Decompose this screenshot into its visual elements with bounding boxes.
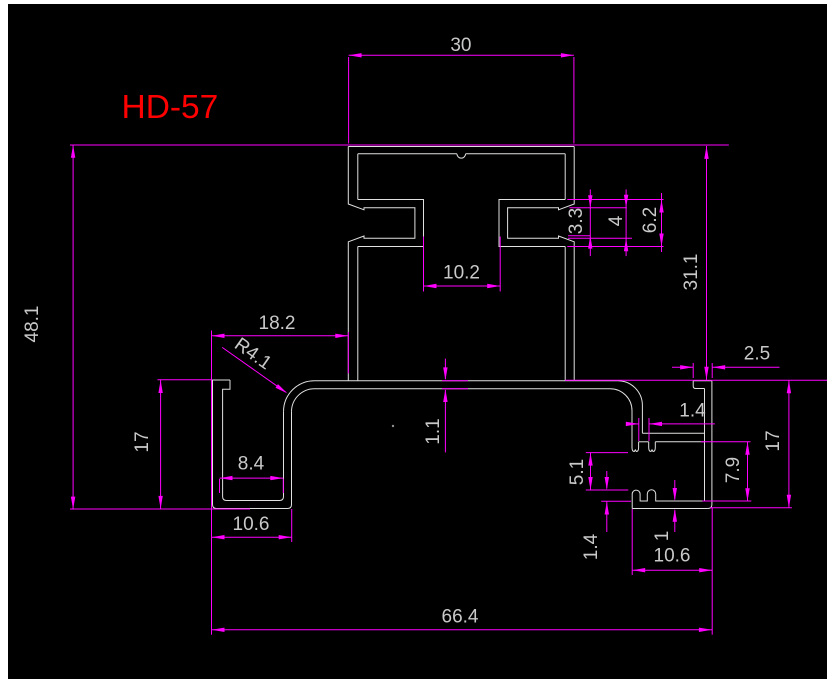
svg-text:4: 4 [606,215,627,226]
profile head left wall outer with slot lips [348,147,415,381]
dimension 1.4 bottom [581,471,631,560]
profile base web bottom line [315,388,611,390]
dimension 31.1 [681,146,709,380]
dimension 10.6 left [212,509,292,542]
extension line right wall outer [711,508,713,635]
svg-text:48.1: 48.1 [22,306,43,343]
extension line left channel outer [211,331,213,635]
profile left slot frame inner lines [358,200,424,247]
svg-text:17: 17 [763,430,784,451]
dimension 2.5 [672,344,780,378]
dimension 10.6 bottom [632,509,712,575]
extension line web top right [565,379,827,381]
profile head inner top line with center notch [358,154,565,158]
profile left channel R4.1 corner arcs [284,381,315,412]
dimension 18.2 [212,313,349,373]
profile head right wall inner [564,154,566,381]
dimension 3.3 [566,189,627,256]
title HD-57 [122,89,219,126]
svg-text:2.5: 2.5 [744,344,770,365]
svg-text:30: 30 [450,35,471,56]
dimension 5.1 [567,453,628,490]
profile right slot frame inner lines [499,200,565,247]
dimension 30 [349,35,574,143]
svg-text:31.1: 31.1 [681,254,702,291]
dimension 66.4 [212,607,712,632]
svg-text:6.2: 6.2 [640,207,661,233]
svg-text:1: 1 [652,531,673,542]
profile screw leg 1 [632,442,639,452]
svg-text:3.3: 3.3 [566,208,587,234]
dimension 48.1 [22,145,75,510]
dimension 6.2 [567,193,663,252]
dimension 17 right [710,380,792,508]
svg-text:1.4: 1.4 [679,401,706,422]
svg-text:10.6: 10.6 [654,546,691,567]
svg-text:5.1: 5.1 [567,459,588,485]
leader R4.1 [222,334,287,393]
profile base web top line [315,380,618,382]
dimension 4 [568,189,632,256]
stray point marker [392,425,394,427]
profile screw leg 2 [649,442,656,452]
profile top-right step [693,381,704,389]
profile left channel outer wall [213,380,292,509]
profile head left wall inner [357,154,359,381]
profile shelf top line [642,432,704,434]
dimension 10.2 [424,237,501,292]
dimension 1.4 top [626,401,715,441]
dimension 1.1 [423,359,468,453]
svg-text:10.2: 10.2 [443,263,480,284]
dimension 7.9 [701,442,752,501]
svg-text:17: 17 [132,431,153,452]
profile bottom wall with screw bosses [632,490,708,509]
profile right web-top drop arc [618,381,643,434]
profile right outer wall [708,381,712,509]
svg-text:10.6: 10.6 [233,514,270,535]
svg-text:66.4: 66.4 [442,607,479,628]
dimension 1 bottom [652,480,677,541]
dimension 8.4 [220,454,284,493]
extension line head top [70,144,729,146]
profile right inner wall [704,389,706,502]
svg-text:18.2: 18.2 [259,313,296,334]
svg-text:HD-57: HD-57 [122,89,219,126]
svg-text:8.4: 8.4 [238,454,265,475]
svg-text:1.4: 1.4 [581,533,602,560]
profile shelf bottom line [655,441,704,443]
extension line channel bottom [70,508,250,510]
dimension 17 left [132,380,212,509]
profile top-right edge [693,380,712,382]
svg-text:7.9: 7.9 [723,457,744,483]
profile right web-bottom drop arc [610,389,632,443]
profile screw leg gap ceiling [639,441,649,443]
svg-text:1.1: 1.1 [423,418,444,444]
profile head right wall outer with slot lips [508,147,575,381]
profile head top edge [348,146,574,148]
profile left channel lip and inner wall [223,380,284,501]
